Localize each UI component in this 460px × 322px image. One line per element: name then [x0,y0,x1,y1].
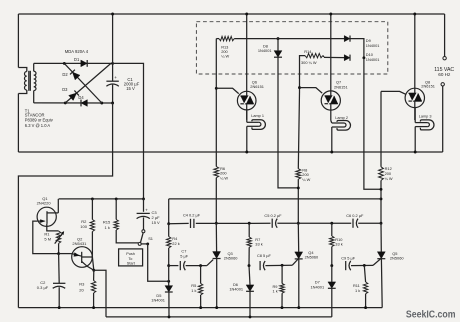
svg-text:C8 5 µF: C8 5 µF [257,253,272,258]
capacitor C7 5uF [169,265,179,267]
svg-text:2N5060: 2N5060 [305,255,319,260]
wire: Q2 collector to lower bus [94,270,106,317]
svg-text:+: + [114,75,117,80]
node: C8 / D6 tap [248,264,251,267]
wire: Q2 collector [82,262,94,271]
wire: left frame mid segment (primary return) [17,94,19,153]
wire: stage3 trigger drop to R12 join [364,58,381,190]
resistor R3 20 [93,270,95,280]
triac Q7 2N6151 [330,14,332,91]
svg-text:To: To [128,257,132,261]
node: D8 join on stage2 line [297,186,300,189]
wire: D7 to lower bus end [331,288,333,317]
node: C7 tap [167,264,170,267]
resistor R12 200 1/4W [379,167,384,181]
SCR Q5 2N5060 [380,223,382,252]
SCR Q4 2N5060 [297,223,299,252]
resistor R6 200 1/4W [214,167,219,178]
svg-text:¼ W: ¼ W [385,176,393,181]
wire: Lamp 2 return to neutral rail [331,127,333,152]
svg-text:5 µF: 5 µF [180,253,188,258]
wire: D5 to lower bus [168,292,170,317]
node: C9 / D7 tap [330,264,333,267]
svg-text:1N4001: 1N4001 [366,43,380,48]
svg-text:2N6151: 2N6151 [250,84,264,89]
capacitor C2 0.3uF [58,254,61,284]
wire: Q4 cathode [298,259,300,308]
node: bridge bottom-left [64,101,67,104]
diode D10 1N4001 [344,55,350,61]
dashed box: trigger network [196,22,387,74]
wire: left DC rail [59,198,144,200]
terminal: 115 VAC upper [443,57,446,60]
svg-text:MDA 920A 4: MDA 920A 4 [65,49,89,54]
svg-text:D1: D1 [74,57,80,62]
node: D8 tap [277,37,280,40]
resistor R4 22k [168,224,170,237]
wire: right DC rail [169,198,381,200]
svg-text:20: 20 [79,288,84,293]
wire: Q8 gate lead [381,91,406,94]
svg-text:¼ W: ¼ W [302,177,310,182]
svg-text:¼ W: ¼ W [221,54,229,59]
wire: bridge diagonal BL-TR [65,63,111,103]
wire: top rail extension to DC down-feed [113,63,144,199]
transformer T1 core [28,71,30,91]
svg-text:2N5060: 2N5060 [390,255,404,260]
svg-text:0.3 µF: 0.3 µF [37,285,49,290]
triac Q8 2N6151 [414,14,416,88]
svg-text:Lamp 3: Lamp 3 [419,115,432,119]
wire: D6 to lower bus [249,291,251,317]
node: C2 ground [58,306,61,309]
wire: R13 output to D9 [276,38,344,40]
wire: bridge bottom rail [34,102,113,104]
terminal: 115 VAC lower [441,83,444,86]
svg-text:300 ¼ W: 300 ¼ W [301,60,317,65]
svg-text:1 k: 1 k [191,288,196,293]
node: Q4 gate / R9 [281,264,284,267]
node: Q7 gate tap [298,86,301,89]
transformer T1 primary lead top [18,68,26,72]
svg-text:D2: D2 [62,72,68,77]
wire: bridge top rail [34,62,113,64]
wire: Q8 gate corner vertical [380,91,382,166]
node: DC feed / left rail junction [142,197,145,200]
svg-text:33 k: 33 k [255,242,262,247]
transformer T1 secondary lead bottom [33,91,35,103]
node: Q5 gate / R11 [363,264,366,267]
resistor R7 33k [248,222,251,225]
node: Q1 gate / R1 / C2 / Q2 emitter junction [57,252,60,255]
svg-text:200: 200 [385,171,392,176]
resistor R8 200 1/4W [296,169,301,180]
wire: Q1 gate loop [33,221,59,254]
wire: stage1 trigger vertical R13-Q6 gate-R6 [215,39,217,167]
wire: S1 to timing node [148,244,169,281]
svg-text:¼ W: ¼ W [220,175,228,180]
node: bridge top-left [63,62,66,65]
wire: lower bus [106,316,332,318]
diode D7 1N4001 [331,266,333,282]
node: Q6 gate tap [215,87,218,90]
wire: timing chain vertical R4 [168,199,170,224]
svg-text:R14: R14 [304,49,312,54]
switch box: Push To Start [119,249,143,266]
wire: Q7 gate lead [300,88,323,94]
svg-text:1 k: 1 k [105,225,110,230]
svg-text:2N5060: 2N5060 [224,256,238,261]
node: Q5 anode node [380,222,383,225]
wire: ground return from bridge BR [18,103,112,308]
resistor R13 200 1/4W [216,38,219,40]
wire: anode coupling bus [169,222,189,224]
svg-text:+: + [145,208,148,213]
svg-text:S1: S1 [148,236,153,241]
svg-text:1 k: 1 k [355,288,360,293]
svg-text:D3: D3 [62,87,68,92]
wire: Lamp 3 return to neutral rail [414,127,416,152]
resistor R15 1k [115,197,118,200]
svg-text:C9 5 µF: C9 5 µF [341,255,356,260]
diode D6 1N4001 [249,266,250,285]
svg-text:1N4001: 1N4001 [258,48,272,53]
diode D5 1N4001 [168,281,170,285]
transformer T1 primary winding [25,72,27,91]
capacitor C1 2000uF [112,63,114,81]
svg-text:2N4220: 2N4220 [37,200,52,205]
diode D9 1N4001 [344,36,350,42]
wire: Q5 cathode to ground rail end [380,259,383,308]
resistor R14 300 1/4W [300,56,306,88]
wire: R14 to D10 [324,56,344,58]
resistor R2 100 [91,197,94,200]
node: bridge bottom-right diagonal junction [100,102,103,105]
wire: neutral rail [18,151,442,153]
svg-text:33 k: 33 k [335,242,342,247]
wire: bridge diagonal TL-BR [64,63,102,103]
node: C1 bottom / bridge BR [111,102,114,105]
resistor R9 1k [281,265,283,283]
wire: D9 to stage3 trigger drop [350,39,364,58]
wire: Lamp 1 return to neutral rail [246,126,248,152]
wire: Q4 gate diagonal [292,259,298,266]
transformer T1 primary lead bottom [18,90,26,94]
node: right rail end junction [380,197,383,200]
wire: DC+ riser from top frame to bridge TR [112,14,114,63]
svg-text:1 k: 1 k [273,288,278,293]
svg-text:15 V: 15 V [152,220,161,225]
resistor R10 33k [330,222,333,225]
svg-text:P8389 or Equiv: P8389 or Equiv [25,118,54,123]
wire: Q3 cathode [216,259,218,308]
svg-text:C4 0.2 µF: C4 0.2 µF [183,212,201,217]
resistor R11 1k [364,265,365,282]
svg-text:1N4001: 1N4001 [366,57,380,62]
wire: R15 to switch [116,230,138,243]
wire: D8 cathode drop to stage2 join [278,57,298,188]
svg-text:Push: Push [126,252,135,256]
node: top frame / riser junction [111,13,114,16]
svg-text:60 Hz: 60 Hz [438,72,451,77]
svg-text:Start: Start [127,262,136,266]
node: Q3 anode node [215,222,218,225]
node: D10 / stage3 trigger junction [362,56,365,59]
node: R3 ground [92,306,95,309]
wire: Q1 source lead [47,224,59,231]
transformer T1 secondary lead top [33,63,35,71]
wire: right frame drop to AC terminal [444,14,446,57]
wire: Q5 gate diagonal [373,258,381,265]
svg-text:Lamp 1: Lamp 1 [251,114,264,118]
node: D9/D10 join on stage3 line [380,188,383,191]
node: C4 tap [167,222,170,225]
svg-text:2N5431: 2N5431 [72,241,87,246]
wire: top frame (AC line bus) [18,13,444,15]
svg-text:1N4001: 1N4001 [151,297,165,302]
svg-text:R3: R3 [79,282,85,287]
svg-text:SeekIC.com: SeekIC.com [406,309,456,320]
svg-text:22 k: 22 k [172,241,179,246]
node: bridge top-right [111,62,114,65]
node: Q4 anode node [297,222,300,225]
svg-text:1N4001: 1N4001 [311,284,325,289]
node: Q2 collector junction [92,269,95,272]
resistor R5 1k [200,266,202,284]
wire: stage2 trigger vertical R14-Q7 gate-R8 [299,88,301,92]
svg-text:C6 0.2 µF: C6 0.2 µF [346,213,364,218]
wire: Q3 gate diagonal [207,260,213,266]
svg-text:Lamp 2: Lamp 2 [335,116,348,120]
node: S1 output [146,242,149,245]
svg-text:6.3 V @ 1.0 A: 6.3 V @ 1.0 A [25,123,51,128]
node: S1 wire join [167,280,170,283]
triac Q6 2N6151 [246,14,248,91]
wire: Q6 gate lead [216,88,238,93]
svg-text:100: 100 [80,224,87,229]
svg-text:D4: D4 [78,95,84,100]
SCR Q3 2N5060 [215,223,217,251]
svg-text:R4: R4 [172,236,178,241]
svg-text:5 M: 5 M [44,236,51,241]
svg-text:C5 0.2 µF: C5 0.2 µF [264,213,282,218]
wire: neutral drop from lower AC terminal [442,86,444,152]
capacitor C3 2uF 15V [143,199,145,212]
wire: main ground rail [18,307,382,309]
wire: left frame upper segment [17,14,19,68]
svg-text:2N6151: 2N6151 [421,84,435,89]
svg-text:1N4001: 1N4001 [229,287,243,292]
svg-text:2N6151: 2N6151 [334,84,348,89]
node: Q3 gate / R5 [199,264,202,267]
svg-text:15 V: 15 V [126,86,135,91]
transformer T1 secondary winding [34,71,36,90]
